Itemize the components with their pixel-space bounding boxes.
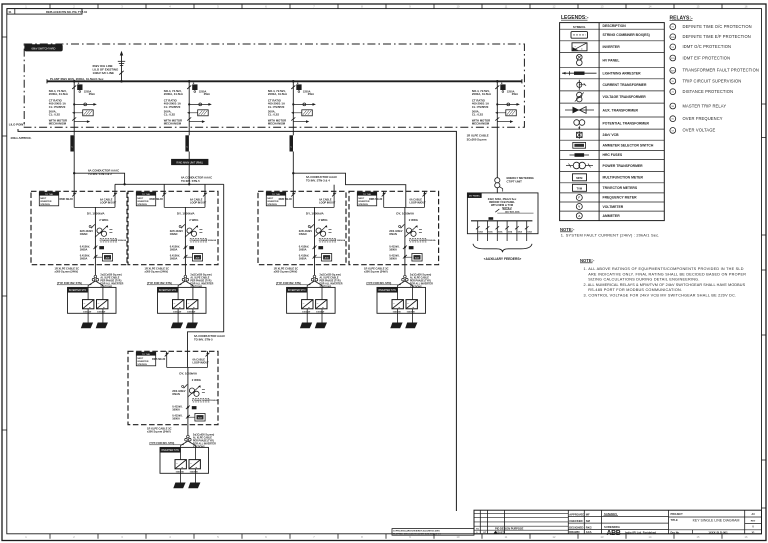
svg-text:NEXT: NEXT bbox=[267, 198, 273, 200]
svg-text:SYMBOL: SYMBOL bbox=[573, 25, 586, 29]
unit 5 cable label bbox=[194, 334, 225, 342]
svg-text:PLANT 66kV BUS, 2000A, 31.5kA/: PLANT 66kV BUS, 2000A, 31.5kA/1 Sec bbox=[50, 77, 104, 81]
relay 86 bbox=[670, 103, 726, 109]
svg-text:OVER VOLTAGE: OVER VOLTAGE bbox=[683, 128, 716, 133]
svg-text:NEXT: NEXT bbox=[40, 198, 46, 200]
aux feeder drop 5 bbox=[515, 221, 523, 241]
svg-text:TO INV. STN-1 & 2: TO INV. STN-1 & 2 bbox=[88, 172, 112, 176]
svg-text:STATION: STATION bbox=[358, 203, 368, 206]
current transformer F3 bbox=[292, 103, 316, 106]
svg-text:MULTIFUNCTION METER: MULTIFUNCTION METER bbox=[603, 175, 644, 179]
svg-text:TO THE: TO THE bbox=[142, 354, 150, 356]
svg-text:«AUXILIARY FEEDERS»: «AUXILIARY FEEDERS» bbox=[484, 257, 522, 261]
title block approvals bbox=[569, 512, 620, 534]
F2 cable label bbox=[181, 175, 212, 183]
node bus tap F2 bbox=[188, 80, 191, 83]
legend header bbox=[561, 15, 589, 21]
MV panel VCB bbox=[489, 209, 534, 220]
svg-text:TO THE: TO THE bbox=[363, 194, 371, 196]
relay unit F4 bbox=[495, 110, 516, 116]
svg-text:ISSUED: ISSUED bbox=[495, 530, 505, 534]
circuit breaker F1 bbox=[72, 83, 82, 92]
isolator arrow F2 bbox=[187, 117, 205, 123]
svg-text:NOTE:-: NOTE:- bbox=[560, 227, 575, 232]
svg-text:HV PANEL: HV PANEL bbox=[603, 58, 620, 62]
legend symbol HRC fuse bbox=[570, 153, 590, 157]
legend symbol ammeter bbox=[576, 213, 582, 219]
wire F3 branch to unit 4 bbox=[293, 173, 406, 207]
aux feeder drop 1 bbox=[476, 221, 484, 241]
U4 loop info box bbox=[357, 192, 376, 206]
inverter transformer station U4 dashed box bbox=[349, 191, 439, 264]
relay 50 bbox=[670, 24, 752, 30]
svg-text:2000A, 31.5kA: 2000A, 31.5kA bbox=[164, 92, 183, 96]
inverter transformer station U5 dashed box bbox=[128, 351, 218, 424]
switchyard boundary (dash-dot) bbox=[24, 44, 524, 127]
notes block bbox=[580, 258, 746, 298]
svg-text:MASTER TRIP RELAY: MASTER TRIP RELAY bbox=[683, 103, 727, 108]
relays header bbox=[670, 16, 693, 22]
MV panel text bbox=[488, 197, 517, 210]
svg-text:2000A, 31.5kA: 2000A, 31.5kA bbox=[472, 92, 491, 96]
border zone marks left bbox=[2, 37, 7, 430]
svg-text:DISTANCE PROTECTION: DISTANCE PROTECTION bbox=[683, 89, 734, 94]
F3 branch cable label bbox=[306, 175, 337, 183]
svg-text:CHECKED: CHECKED bbox=[569, 519, 582, 523]
relay 21 bbox=[670, 89, 733, 95]
CT F1 labels bbox=[49, 98, 66, 108]
lightning arrester LA1 bbox=[118, 61, 125, 65]
isolator arrow F4 bbox=[495, 117, 513, 123]
legend symbol ammeter selector switch bbox=[573, 142, 586, 148]
svg-text:2000A, 31.5kA: 2000A, 31.5kA bbox=[268, 92, 287, 96]
U2 loop info box bbox=[136, 192, 155, 206]
revision note box bbox=[7, 9, 88, 15]
MV panel bus bbox=[471, 220, 532, 222]
isolator F3 labels bbox=[268, 119, 286, 126]
svg-text:NOTE:-: NOTE:- bbox=[580, 258, 595, 263]
svg-text:3. CONTROL VOLTAGE FOR 24kV V: 3. CONTROL VOLTAGE FOR 24kV VCB MV SWITC… bbox=[584, 294, 737, 298]
svg-text:APPROVED: APPROVED bbox=[569, 512, 584, 516]
svg-text:25kA: 25kA bbox=[308, 92, 314, 96]
svg-text:AMMETER: AMMETER bbox=[603, 214, 621, 218]
wire pair A ring link bbox=[115, 183, 224, 191]
svg-text:25kA: 25kA bbox=[204, 92, 210, 96]
border zone ticks top bbox=[25, 4, 748, 9]
metering CT/PT unit bbox=[495, 178, 503, 192]
svg-text:24kV VCB: 24kV VCB bbox=[603, 133, 620, 137]
svg-text:FREQUENCY METER: FREQUENCY METER bbox=[603, 196, 638, 200]
wire feeder F3 drop bbox=[292, 81, 294, 127]
svg-text:TRIVECTOR METERS: TRIVECTOR METERS bbox=[603, 186, 638, 190]
svg-text:MECHANISM: MECHANISM bbox=[268, 122, 286, 126]
svg-text:TRIP CIRCUIT SUPERVISION: TRIP CIRCUIT SUPERVISION bbox=[683, 78, 742, 83]
relay 51 bbox=[670, 44, 731, 50]
svg-text:STATION: STATION bbox=[137, 203, 147, 206]
svg-text:India (P) Ltd. Faridabad: India (P) Ltd. Faridabad bbox=[625, 531, 656, 535]
plant boundary line bbox=[18, 129, 456, 511]
relay F2 labels bbox=[164, 109, 175, 116]
svg-text:400m APPROX.: 400m APPROX. bbox=[10, 136, 31, 140]
incoming line labels bbox=[93, 64, 119, 75]
svg-text:REPLACED PIN NO. P6L TYP-04: REPLACED PIN NO. P6L TYP-04 bbox=[46, 10, 88, 14]
wire F4 into MV panel bbox=[496, 188, 498, 193]
svg-text:INVERTER: INVERTER bbox=[40, 201, 51, 203]
svg-text:CURRENT TRANSFORMER: CURRENT TRANSFORMER bbox=[603, 83, 647, 87]
wire F1 to unit 1 bbox=[73, 135, 75, 191]
cable tag F2 bbox=[185, 127, 189, 151]
svg-text:DRAWN: DRAWN bbox=[569, 530, 579, 534]
svg-text:NEXT: NEXT bbox=[137, 358, 143, 360]
svg-text:CL: PS/5P20: CL: PS/5P20 bbox=[164, 105, 181, 109]
svg-text:630A: 630A bbox=[528, 231, 533, 234]
svg-text:TITLE: TITLE bbox=[671, 518, 678, 522]
legend symbol frequency meter bbox=[576, 195, 582, 201]
svg-text:CL: PS/5P20: CL: PS/5P20 bbox=[268, 105, 285, 109]
CT F4 labels bbox=[472, 98, 489, 108]
svg-text:RING MAIN UNIT (RMU): RING MAIN UNIT (RMU) bbox=[176, 161, 203, 164]
svg-text:66kV SWITCHYARD: 66kV SWITCHYARD bbox=[32, 46, 56, 50]
U3 loop info box bbox=[266, 192, 285, 206]
wire F4 drop bbox=[496, 127, 498, 177]
isolator F4 labels bbox=[472, 119, 490, 126]
title block frame bbox=[474, 510, 762, 534]
ring main unit label bbox=[172, 159, 209, 164]
drawing file strip bbox=[392, 529, 474, 536]
legend table bbox=[560, 23, 665, 221]
CT F3 labels bbox=[268, 98, 285, 108]
legend symbol HV panel bbox=[577, 54, 583, 65]
svg-text:630A: 630A bbox=[518, 231, 523, 234]
svg-text:51N: 51N bbox=[671, 58, 675, 60]
svg-text:LIGHTNING ARRESTER: LIGHTNING ARRESTER bbox=[603, 71, 642, 75]
wire pair B link bbox=[333, 185, 335, 192]
svg-text:STATION: STATION bbox=[267, 203, 277, 206]
breaker F4 rating labels bbox=[472, 89, 518, 96]
svg-text:AUX. TRANSFORMER: AUX. TRANSFORMER bbox=[603, 108, 639, 112]
svg-text:ARE INDICATIVE ONLY. FINAL RAT: ARE INDICATIVE ONLY. FINAL RATING SHALL … bbox=[588, 272, 746, 276]
legend symbol voltmeter bbox=[576, 204, 582, 210]
breaker F1 rating labels bbox=[49, 89, 95, 96]
svg-text:CL: 0.2S: CL: 0.2S bbox=[472, 113, 483, 117]
current transformer F4 bbox=[496, 103, 520, 106]
svg-text:PID DESIGN PURPOSE: PID DESIGN PURPOSE bbox=[495, 527, 524, 531]
svg-text:630A: 630A bbox=[508, 231, 513, 234]
node bus tap F4 bbox=[496, 80, 499, 83]
svg-text:1. ALL ABOVE RATINGS OF EQUIP: 1. ALL ABOVE RATINGS OF EQUIPMENTS/COMPO… bbox=[584, 267, 744, 271]
svg-text:INVERTER: INVERTER bbox=[267, 201, 278, 203]
relay F4 labels bbox=[472, 109, 483, 116]
bus label bbox=[50, 77, 104, 81]
svg-text:630A: 630A bbox=[498, 231, 503, 234]
svg-text:CL: 0.2S: CL: 0.2S bbox=[268, 113, 279, 117]
svg-text:G:\PROJ\SOLAR\1XXX\E\KEY-SLD-R: G:\PROJ\SOLAR\1XXX\E\KEY-SLD-REV01.DWG bbox=[393, 530, 440, 533]
svg-text:PROJECT: PROJECT bbox=[671, 512, 684, 516]
node F1 branch bbox=[73, 172, 75, 174]
svg-text:LILO POINT: LILO POINT bbox=[9, 122, 25, 126]
relay 81 bbox=[670, 116, 723, 122]
legend symbol lightning arrester bbox=[562, 71, 597, 75]
svg-text:INVERTER: INVERTER bbox=[603, 45, 621, 49]
svg-text:25kA: 25kA bbox=[89, 92, 95, 96]
aux feeder drop 2 bbox=[486, 221, 494, 241]
ABB logo bbox=[607, 530, 657, 537]
legend symbol potential transformer bbox=[574, 120, 585, 130]
MV panel box bbox=[467, 193, 538, 234]
relay F3 labels bbox=[268, 109, 279, 116]
svg-text:TO INV. STN-5: TO INV. STN-5 bbox=[194, 337, 213, 341]
svg-text:PLOTTED: 2016-04-12 10:42 BY:: PLOTTED: 2016-04-12 10:42 BY: ACA SCALE … bbox=[393, 532, 441, 535]
relay 50N bbox=[670, 34, 751, 40]
U3 internals (RMU, transformer, LV switches, inverters, grounds) bbox=[274, 191, 346, 328]
svg-text:DESCRIPTION: DESCRIPTION bbox=[603, 24, 627, 28]
wire feeder F1 drop bbox=[73, 81, 75, 127]
svg-text:NEXT: NEXT bbox=[137, 198, 143, 200]
svg-text:IDMT O/C PROTECTION: IDMT O/C PROTECTION bbox=[683, 44, 732, 49]
U4 internals (RMU, transformer, LV switches, inverters, grounds) bbox=[364, 191, 436, 328]
svg-text:HRC FUSES: HRC FUSES bbox=[603, 153, 623, 157]
note fault current bbox=[560, 227, 660, 238]
svg-text:MF: MF bbox=[586, 512, 590, 516]
svg-text:VOLTAGE TRANSFORMER: VOLTAGE TRANSFORMER bbox=[603, 95, 647, 99]
wire F2 to link bbox=[188, 165, 190, 186]
MV panel label bbox=[468, 193, 482, 197]
svg-text:AMMETER SELECTOR SWITCH: AMMETER SELECTOR SWITCH bbox=[603, 144, 654, 148]
svg-text:INVERTER: INVERTER bbox=[137, 201, 148, 203]
svg-text:25kA: 25kA bbox=[512, 92, 518, 96]
circuit breaker F2 bbox=[187, 83, 197, 92]
svg-text:KEY SINGLE LINE DIAGRAM: KEY SINGLE LINE DIAGRAM bbox=[693, 519, 740, 523]
legend symbol MFM bbox=[573, 174, 587, 181]
svg-text:OVER FREQUENCY: OVER FREQUENCY bbox=[683, 116, 723, 121]
F1 branch cable label bbox=[88, 169, 119, 177]
breaker F2 rating labels bbox=[164, 89, 210, 96]
svg-text:SURENDRA: SURENDRA bbox=[604, 525, 620, 529]
svg-text:TRANSFORMER FAULT PROTECTION: TRANSFORMER FAULT PROTECTION bbox=[683, 68, 759, 73]
svg-text:F: F bbox=[578, 196, 580, 200]
svg-text:CL: 0.2S: CL: 0.2S bbox=[164, 113, 175, 117]
svg-text:RS-485 PORT FOR MODBUS COMMUNI: RS-485 PORT FOR MODBUS COMMUNICATION. bbox=[588, 288, 682, 292]
cable tag F3 bbox=[290, 127, 294, 151]
svg-text:POWER TRANSFORMER: POWER TRANSFORMER bbox=[603, 164, 644, 168]
legend symbol string combiner box bbox=[571, 32, 588, 39]
svg-text:132kV S/C LINE: 132kV S/C LINE bbox=[93, 71, 114, 75]
wire F2 below tag bbox=[188, 152, 190, 160]
switchyard label bbox=[25, 45, 63, 51]
isolator arrow F3 bbox=[291, 117, 309, 123]
svg-text:STRING COMBINER BOX(ES): STRING COMBINER BOX(ES) bbox=[603, 33, 650, 37]
svg-text:CL: PS/5P20: CL: PS/5P20 bbox=[49, 105, 66, 109]
aux feeder drop 6 bbox=[525, 221, 533, 241]
U2 internals (RMU, transformer, LV switches, inverters, grounds) bbox=[145, 191, 217, 328]
svg-text:3Cx300 Sq.mm: 3Cx300 Sq.mm bbox=[467, 137, 487, 141]
relay unit F1 bbox=[72, 110, 93, 116]
node incoming junction bbox=[120, 80, 123, 83]
wire interconnect to unit 5 bbox=[188, 184, 224, 367]
circuit breaker F4 bbox=[495, 83, 505, 92]
svg-text:TVM: TVM bbox=[576, 187, 582, 191]
svg-text:1. SYSTEM FAULT CURRENT (24kV: 1. SYSTEM FAULT CURRENT (24kV) : 20kA/1 … bbox=[561, 233, 660, 238]
current transformer F2 bbox=[188, 103, 212, 106]
svg-text:CL: PS/5P20: CL: PS/5P20 bbox=[472, 105, 489, 109]
relay 95 bbox=[670, 78, 741, 84]
isolator incoming bbox=[119, 71, 123, 75]
isolator F1 labels bbox=[49, 119, 67, 126]
legend symbol voltage transformer bbox=[575, 92, 584, 102]
legend descriptions bbox=[573, 24, 654, 218]
svg-text:ABB: ABB bbox=[607, 530, 621, 537]
svg-text:630A: 630A bbox=[488, 231, 493, 234]
svg-text:MECHANISM: MECHANISM bbox=[49, 122, 67, 126]
svg-text:1XXX-SLD-001: 1XXX-SLD-001 bbox=[708, 530, 728, 534]
legend symbol power transformer bbox=[566, 162, 593, 169]
breaker F3 rating labels bbox=[268, 89, 314, 96]
svg-text:STATION: STATION bbox=[137, 363, 147, 366]
legend symbol current transformer bbox=[577, 80, 586, 90]
svg-text:V: V bbox=[578, 205, 580, 209]
inverter transformer station U3 dashed box bbox=[258, 191, 346, 264]
U5 internals (RMU, transformer, LV switches, inverters, grounds) bbox=[147, 351, 219, 488]
svg-text:MV PANEL: MV PANEL bbox=[469, 195, 481, 198]
CT F2 labels bbox=[164, 98, 181, 108]
svg-text:SIZING CALCULATIONS DURING DET: SIZING CALCULATIONS DURING DETAIL ENGINE… bbox=[588, 278, 699, 282]
current transformer F1 bbox=[73, 103, 97, 106]
svg-text:MFM: MFM bbox=[576, 176, 583, 180]
U5 loop info box bbox=[136, 352, 155, 366]
svg-text:2000A, 31.5kA: 2000A, 31.5kA bbox=[49, 92, 68, 96]
wire feeder F2 drop bbox=[188, 81, 190, 127]
wire feeder F4 drop bbox=[496, 81, 498, 127]
svg-text:2. ALL NUMERICAL RELAYS & MFM: 2. ALL NUMERICAL RELAYS & MFM/TVM OF 24k… bbox=[584, 283, 746, 287]
F4 cable label bbox=[467, 134, 489, 142]
svg-text:24kV BUS, 630A: 24kV BUS, 630A bbox=[505, 210, 520, 213]
svg-text:DEFINITE TIME E/F PROTECTION: DEFINITE TIME E/F PROTECTION bbox=[683, 34, 751, 39]
svg-text:CT/PT UNIT: CT/PT UNIT bbox=[507, 180, 523, 184]
curly brace aux feeders bbox=[473, 244, 532, 252]
svg-text:DEFINITE TIME O/C PROTECTION: DEFINITE TIME O/C PROTECTION bbox=[683, 24, 752, 29]
svg-text:TO THE: TO THE bbox=[142, 194, 150, 196]
svg-text:64R: 64R bbox=[671, 70, 675, 72]
relay 51N bbox=[670, 55, 730, 61]
inverter transformer station U1 dashed box bbox=[31, 191, 127, 264]
aux feeder drop 4 bbox=[505, 221, 513, 241]
svg-text:50N: 50N bbox=[671, 37, 675, 39]
wire F3 to unit 3 bbox=[292, 152, 294, 192]
svg-text:CL: 0.2S: CL: 0.2S bbox=[49, 113, 60, 117]
relay 64R bbox=[670, 67, 759, 73]
title block revision rows bbox=[476, 527, 523, 535]
legend symbol TVM bbox=[573, 184, 587, 191]
node bus tap F1 bbox=[73, 80, 76, 83]
aux feeder drop 3 bbox=[496, 221, 504, 241]
incoming line bbox=[120, 51, 123, 82]
relay 59 bbox=[670, 127, 716, 133]
legend symbol 24kV VCB bbox=[577, 131, 583, 139]
svg-text:IDMT E/F PROTECTION: IDMT E/F PROTECTION bbox=[683, 55, 731, 60]
svg-text:ACA: ACA bbox=[586, 530, 592, 534]
relay F1 labels bbox=[49, 109, 60, 116]
node bus tap F3 bbox=[292, 80, 295, 83]
svg-text:TO THE: TO THE bbox=[45, 194, 53, 196]
border zone marks right bbox=[762, 104, 767, 508]
node LILO point label bbox=[9, 122, 32, 140]
svg-text:NEXT: NEXT bbox=[358, 198, 364, 200]
relay unit F2 bbox=[187, 110, 208, 116]
svg-text:VOLTMETER: VOLTMETER bbox=[603, 205, 624, 209]
svg-text:MECHANISM: MECHANISM bbox=[472, 122, 490, 126]
legend symbol inverter bbox=[572, 43, 587, 51]
metering labels bbox=[507, 176, 534, 184]
svg-text:POTENTIAL TRANSFORMER: POTENTIAL TRANSFORMER bbox=[603, 121, 650, 125]
svg-text:630A: 630A bbox=[479, 231, 484, 234]
circuit breaker F3 bbox=[291, 83, 301, 92]
bus 66kV main bbox=[47, 79, 522, 83]
svg-text:DESIGNED: DESIGNED bbox=[569, 525, 583, 529]
isolator F2 labels bbox=[164, 119, 182, 126]
border zone ticks bottom bbox=[25, 534, 748, 539]
svg-text:TO INV. STN-3 & 4: TO INV. STN-3 & 4 bbox=[306, 178, 330, 182]
isolator arrow F1 bbox=[72, 117, 90, 123]
cable tag F1 bbox=[70, 127, 74, 151]
inverter transformer station U2 dashed box bbox=[128, 191, 218, 264]
relay unit F3 bbox=[291, 110, 312, 116]
svg-text:Drg No.: Drg No. bbox=[671, 530, 681, 534]
title block project cells bbox=[671, 512, 756, 534]
svg-text:INVERTER: INVERTER bbox=[137, 361, 148, 363]
svg-text:REV: REV bbox=[751, 521, 756, 523]
aux feeders label bbox=[484, 257, 522, 261]
svg-text:RKG: RKG bbox=[586, 525, 592, 529]
U1 internals (RMU, transformer, LV switches, inverters, grounds) bbox=[55, 191, 127, 328]
svg-text:TO INV. STN-5: TO INV. STN-5 bbox=[181, 179, 200, 183]
svg-text:TO THE: TO THE bbox=[272, 194, 280, 196]
svg-text:STATION: STATION bbox=[40, 203, 50, 206]
U1 loop info box bbox=[39, 192, 58, 206]
svg-text:MECHANISM: MECHANISM bbox=[164, 122, 182, 126]
legend symbol aux transformer bbox=[565, 107, 594, 114]
wire F1 branch to unit 2 bbox=[74, 173, 124, 184]
